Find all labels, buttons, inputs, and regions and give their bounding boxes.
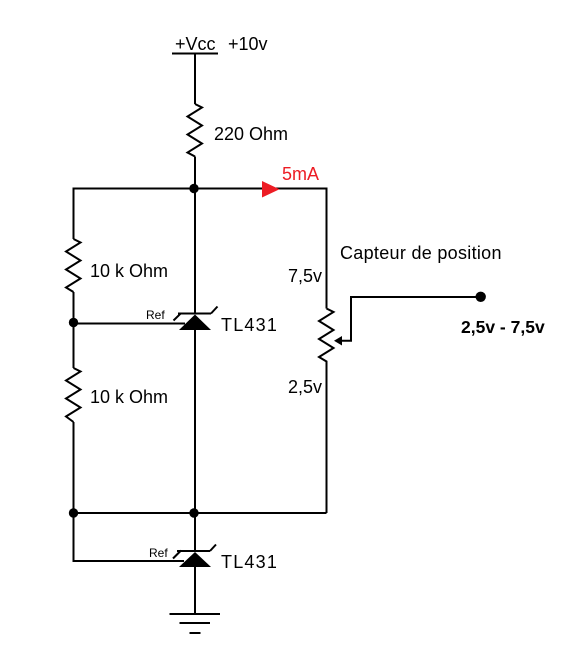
right tick (211, 307, 218, 314)
node junction dot bottom-left (69, 508, 78, 517)
svg-text:Ref: Ref (149, 546, 168, 560)
wire top horizontal rail (74, 188, 327, 190)
svg-text:2,5v - 7,5v: 2,5v - 7,5v (461, 317, 545, 337)
potentiometer resistor body (319, 309, 334, 365)
wire TL431 upper anode down to bottom rail (194, 330, 196, 513)
wire between upper 10k and ref node (73, 292, 75, 368)
node junction dot left middle (69, 318, 78, 327)
wire wiper to output (340, 297, 480, 341)
node +Vcc underline (172, 53, 218, 55)
wire bottom junction to TL431 lower cathode (194, 513, 196, 552)
left tick (ref diagonal) (174, 313, 182, 320)
wire R220 to top node (194, 157, 196, 190)
left tick (ref diagonal) (173, 551, 181, 559)
op-amp TL431 upper (shunt regulator) (174, 307, 218, 331)
cathode bar (178, 313, 211, 315)
wire ref of TL431 lower (down from left junction) (74, 513, 185, 561)
svg-text:TL431: TL431 (221, 552, 278, 572)
resistor 10 k Ohm lower (66, 368, 81, 422)
cathode bar (177, 550, 210, 552)
wire right branch lower (326, 364, 328, 513)
wire TL431 lower anode to ground (194, 567, 196, 614)
wire left branch lower (73, 422, 75, 513)
wire Vcc to R 220 (194, 54, 196, 104)
ground (170, 614, 221, 633)
wire bottom horizontal rail (74, 512, 327, 514)
resistor 220 Ohm (188, 104, 203, 157)
svg-text:TL431: TL431 (221, 315, 278, 335)
wire ref of TL431 upper (74, 323, 186, 325)
svg-text:7,5v: 7,5v (288, 266, 322, 286)
svg-text:220 Ohm: 220 Ohm (214, 124, 288, 144)
svg-text:10 k Ohm: 10 k Ohm (90, 387, 168, 407)
triangle body (179, 552, 211, 567)
potentiometer wiper arrow (334, 336, 342, 346)
wire left branch upper (73, 188, 75, 240)
svg-text:Ref: Ref (146, 308, 165, 322)
op-amp TL431 lower (shunt regulator) (173, 545, 216, 568)
svg-text:10 k Ohm: 10 k Ohm (90, 261, 168, 281)
triangle body (179, 315, 211, 331)
right tick (210, 545, 216, 552)
node junction dot top (189, 184, 198, 193)
svg-text:5mA: 5mA (282, 164, 319, 184)
resistor 10 k Ohm upper (66, 239, 81, 292)
current arrow 5mA (262, 181, 280, 198)
wire right branch upper (326, 188, 328, 309)
svg-text:+10v: +10v (228, 34, 268, 54)
svg-text:Capteur de position: Capteur de position (340, 243, 502, 263)
node output terminal dot (476, 292, 486, 302)
node junction dot bottom-middle (189, 508, 198, 517)
svg-text:+Vcc: +Vcc (175, 34, 216, 54)
wire middle branch (node to TL431 upper) (194, 189, 196, 315)
svg-text:2,5v: 2,5v (288, 377, 322, 397)
